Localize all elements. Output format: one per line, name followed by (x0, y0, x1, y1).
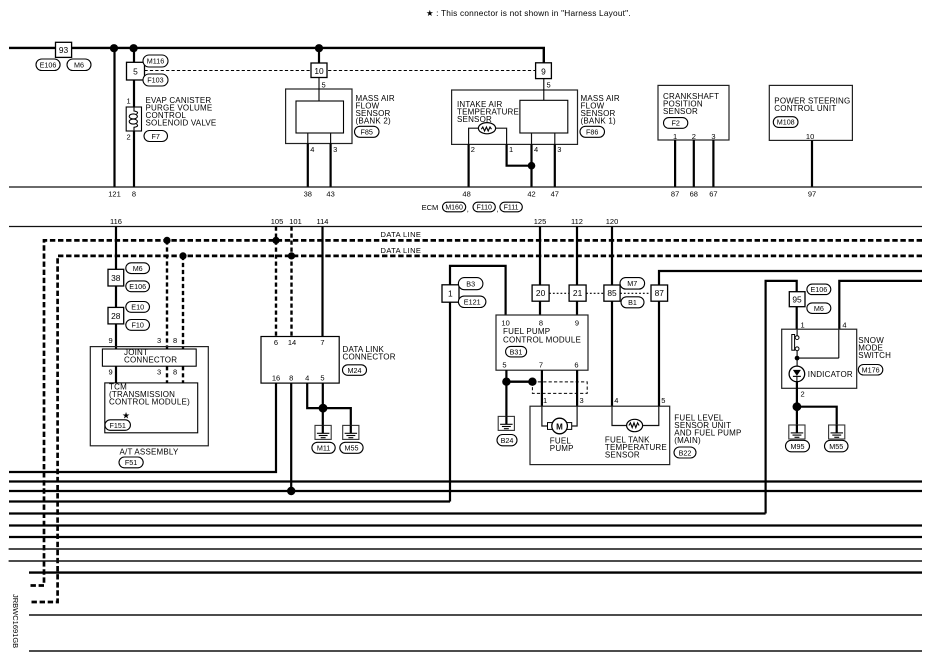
svg-text:121: 121 (108, 190, 121, 199)
svg-text:3: 3 (157, 368, 161, 377)
svg-text:B22: B22 (679, 448, 692, 457)
svg-text:1: 1 (673, 132, 677, 141)
svg-text:28: 28 (111, 311, 121, 321)
svg-text:CONTROL MODULE): CONTROL MODULE) (109, 398, 190, 407)
svg-text:M11: M11 (317, 444, 330, 453)
svg-text:M176: M176 (862, 366, 880, 375)
svg-text:95: 95 (792, 294, 802, 304)
svg-text:E121: E121 (464, 298, 481, 307)
svg-text:43: 43 (326, 190, 334, 199)
svg-text:★: ★ (122, 411, 130, 421)
svg-text:3: 3 (333, 145, 337, 154)
svg-text:M: M (556, 422, 563, 431)
svg-text:7: 7 (539, 361, 543, 370)
svg-text:F85: F85 (361, 128, 373, 137)
svg-text:1: 1 (543, 396, 547, 405)
svg-text:4: 4 (842, 321, 846, 330)
svg-text:M160: M160 (445, 205, 463, 212)
svg-text:105: 105 (271, 217, 284, 226)
svg-text:97: 97 (808, 190, 816, 199)
svg-text:M116: M116 (147, 57, 164, 66)
svg-text:87: 87 (655, 288, 665, 298)
svg-text:116: 116 (110, 217, 122, 226)
svg-text:E106: E106 (40, 61, 57, 70)
svg-text:2: 2 (801, 390, 805, 399)
svg-text:M6: M6 (74, 61, 84, 70)
svg-text:85: 85 (607, 288, 617, 298)
svg-text:M7: M7 (627, 279, 637, 288)
svg-text:SENSOR: SENSOR (663, 107, 698, 116)
svg-text:,: , (497, 205, 499, 214)
svg-text:3: 3 (580, 396, 584, 405)
svg-text:M6: M6 (133, 264, 143, 273)
svg-text:M24: M24 (348, 366, 362, 375)
svg-text:2: 2 (471, 145, 475, 154)
svg-text:6: 6 (274, 338, 278, 347)
svg-text:F51: F51 (125, 458, 137, 467)
svg-text:JRBWC1691GB: JRBWC1691GB (11, 594, 20, 648)
svg-text:16: 16 (272, 374, 280, 383)
svg-text:4: 4 (614, 396, 618, 405)
svg-text:6: 6 (574, 361, 578, 370)
svg-text:5: 5 (133, 67, 138, 77)
svg-text:87: 87 (671, 190, 679, 199)
svg-text:5: 5 (322, 81, 326, 90)
svg-text:CONNECTOR: CONNECTOR (343, 353, 396, 362)
svg-text:3: 3 (557, 145, 561, 154)
svg-text:CONNECTOR: CONNECTOR (124, 355, 177, 364)
svg-text:9: 9 (541, 66, 546, 76)
svg-text:M95: M95 (791, 442, 805, 451)
svg-text:38: 38 (304, 190, 312, 199)
svg-text:1: 1 (127, 97, 131, 106)
svg-text:(BANK 2): (BANK 2) (356, 117, 392, 126)
svg-text:4: 4 (310, 145, 314, 154)
svg-text:5: 5 (547, 81, 551, 90)
svg-text:10: 10 (314, 66, 324, 76)
svg-text:8: 8 (173, 368, 177, 377)
svg-text:F10: F10 (132, 321, 144, 330)
svg-text:DATA LINE: DATA LINE (381, 230, 422, 239)
svg-text:8: 8 (173, 336, 177, 345)
svg-text:B3: B3 (466, 280, 475, 289)
svg-text:E10: E10 (131, 303, 144, 312)
svg-text:1: 1 (801, 321, 805, 330)
svg-text:(MAIN): (MAIN) (674, 436, 701, 445)
svg-text:M55: M55 (345, 444, 359, 453)
svg-text:14: 14 (288, 338, 296, 347)
svg-text:9: 9 (109, 336, 113, 345)
svg-text:21: 21 (573, 288, 583, 298)
svg-text:M6: M6 (814, 304, 824, 313)
svg-text:,: , (467, 205, 469, 214)
svg-text:ECM: ECM (422, 203, 439, 212)
svg-text:DATA LINE: DATA LINE (381, 246, 422, 255)
svg-text:9: 9 (109, 368, 113, 377)
svg-text:A/T ASSEMBLY: A/T ASSEMBLY (119, 448, 178, 457)
svg-text:M108: M108 (777, 118, 795, 127)
svg-text:INDICATOR: INDICATOR (808, 370, 853, 379)
svg-text:114: 114 (317, 217, 329, 226)
svg-text:8: 8 (132, 190, 136, 199)
svg-text:5: 5 (661, 396, 665, 405)
svg-text:93: 93 (59, 45, 69, 55)
svg-text:B24: B24 (501, 436, 514, 445)
svg-text:B1: B1 (628, 298, 637, 307)
svg-text:67: 67 (709, 190, 717, 199)
svg-text:E106: E106 (811, 285, 828, 294)
svg-text:F86: F86 (586, 128, 598, 137)
svg-text:47: 47 (551, 190, 559, 199)
svg-text:2: 2 (127, 133, 131, 142)
svg-text:2: 2 (692, 132, 696, 141)
svg-text:101: 101 (289, 217, 302, 226)
svg-text:3: 3 (157, 336, 161, 345)
svg-text:38: 38 (111, 273, 121, 283)
svg-text:SWITCH: SWITCH (858, 351, 891, 360)
svg-text:1: 1 (509, 145, 513, 154)
svg-text:20: 20 (536, 288, 546, 298)
svg-text:CONTROL UNIT: CONTROL UNIT (774, 104, 836, 113)
svg-text:F7: F7 (152, 132, 160, 141)
svg-text:120: 120 (606, 217, 619, 226)
svg-text:SOLENOID VALVE: SOLENOID VALVE (146, 119, 217, 128)
svg-text:CONTROL MODULE: CONTROL MODULE (503, 336, 581, 345)
svg-text:1: 1 (448, 289, 453, 299)
svg-text:68: 68 (690, 190, 698, 199)
svg-text:5: 5 (320, 374, 324, 383)
svg-text:3: 3 (711, 132, 715, 141)
svg-text:4: 4 (305, 374, 309, 383)
svg-text:SENSOR: SENSOR (605, 451, 640, 460)
svg-text:M55: M55 (829, 442, 843, 451)
svg-text:125: 125 (534, 217, 547, 226)
svg-text:F2: F2 (672, 119, 680, 128)
svg-text:42: 42 (527, 190, 535, 199)
svg-text:F111: F111 (504, 205, 519, 212)
svg-text:5: 5 (502, 361, 506, 370)
svg-text:10: 10 (806, 132, 814, 141)
svg-text:4: 4 (534, 145, 538, 154)
svg-text:E106: E106 (129, 282, 146, 291)
svg-text:48: 48 (462, 190, 470, 199)
svg-text:9: 9 (575, 319, 579, 328)
svg-text:B31: B31 (510, 347, 523, 356)
svg-text:F151: F151 (110, 421, 126, 430)
svg-text:7: 7 (320, 338, 324, 347)
svg-text:8: 8 (289, 374, 293, 383)
svg-text:★ : This connector is not show: ★ : This connector is not shown in "Harn… (426, 8, 631, 18)
svg-text:PUMP: PUMP (550, 444, 574, 453)
svg-text:(BANK 1): (BANK 1) (581, 117, 617, 126)
svg-text:F110: F110 (476, 205, 492, 212)
svg-text:F103: F103 (147, 76, 163, 85)
svg-text:112: 112 (571, 217, 583, 226)
